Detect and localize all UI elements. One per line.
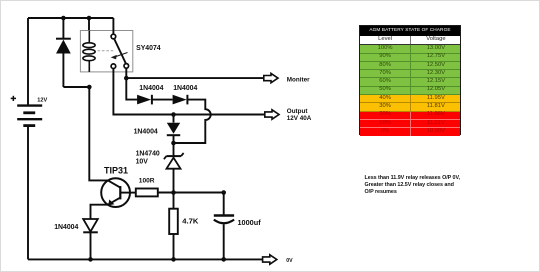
resistor R2 4.7K (169, 209, 178, 234)
node base row / zener / 4.7K (171, 190, 176, 195)
table: AGM battery state of charge (359, 25, 462, 136)
svg-text:1N4004: 1N4004 (139, 85, 163, 92)
svg-text:100R: 100R (139, 178, 155, 185)
wire relay left contact down and output row (113, 69, 264, 115)
node rail / emitter diode (88, 257, 93, 262)
output arrow Output 12V 40A (265, 110, 279, 119)
wire battery negative to 0V rail (27, 127, 29, 260)
diode D4 1N4004 (emitter, cathode down) (83, 219, 98, 259)
relay NC contact (left) (111, 64, 116, 69)
wire relay right contact down to diode row (126, 68, 137, 99)
svg-text:1000uf: 1000uf (238, 218, 262, 227)
node rail / capacitor (221, 257, 226, 262)
relay coil (83, 31, 95, 72)
wire top positive rail (28, 17, 113, 19)
note text (365, 175, 485, 197)
svg-text:TIP31: TIP31 (104, 165, 128, 175)
wire coil top pin (88, 18, 90, 31)
wire 4.7K to 0V rail (173, 234, 175, 259)
wire base row 100R to cap (158, 192, 224, 194)
wire monitor row (126, 77, 263, 79)
battery B1 12V (17, 106, 42, 126)
relay switch lever (114, 39, 126, 64)
svg-text:Moniter: Moniter (287, 76, 310, 83)
transistor Q1 TIP31 (101, 178, 130, 207)
wire base lead (120, 192, 136, 194)
wire between series diodes (152, 99, 173, 101)
relay actuation arrow (111, 53, 128, 60)
node base row / capacitor (221, 190, 226, 195)
node monitor takeoff (124, 76, 129, 81)
relay NO contact (right) (124, 64, 129, 69)
relay SY4074 body box (80, 31, 132, 72)
svg-text:SY4074: SY4074 (136, 45, 161, 52)
svg-text:12V: 12V (37, 97, 47, 103)
svg-text:0V: 0V (286, 258, 293, 264)
diode D3 1N4004 (vertical, cathode down) (167, 115, 180, 144)
wire collector riser from coil node (89, 87, 108, 180)
svg-text:4.7K: 4.7K (182, 217, 199, 226)
output arrow 0V (263, 255, 277, 264)
wire relay common pin from top rail (112, 18, 114, 34)
node rail / 4.7K (171, 257, 176, 262)
wire 0V bottom rail (28, 258, 263, 260)
svg-text:1N4004: 1N4004 (54, 224, 78, 231)
wire battery positive to top rail (27, 18, 29, 105)
node zener top junction (171, 141, 176, 146)
node top rail / relay coil top (87, 16, 92, 21)
wire emitter lead (91, 205, 108, 219)
node top rail / flyback diode (61, 16, 66, 21)
svg-text:1N4004: 1N4004 (173, 85, 197, 92)
diode D1 1N4004 (series, first) (137, 95, 152, 105)
capacitor C1 1000uf (214, 193, 234, 260)
resistor R1 100R (136, 189, 158, 197)
relay common contact (111, 34, 116, 39)
output arrow Moniter (264, 73, 278, 82)
wire zener node to 4.7K (173, 193, 175, 209)
svg-text:1N4740: 1N4740 (136, 150, 160, 157)
svg-text:1N4004: 1N4004 (134, 129, 158, 136)
svg-text:10V: 10V (136, 159, 149, 166)
battery plus label (11, 96, 16, 101)
wire diode row to hop, hop over output row, down to zener node (174, 100, 211, 143)
zener diode 1N4740 10V (cathode up) (164, 143, 184, 193)
wire flyback diode anode to coil bottom (63, 86, 89, 88)
relay dashed actuation line (98, 50, 116, 52)
flyback diode across relay coil (unlabelled, cathode up) (56, 18, 71, 87)
diode D2 1N4004 (series, second) (173, 95, 188, 105)
svg-text:12V 40A: 12V 40A (287, 115, 312, 122)
node coil bottom / flyback / collector (87, 85, 92, 90)
node output row / vertical diode (171, 112, 176, 117)
svg-text:Output: Output (287, 108, 309, 115)
